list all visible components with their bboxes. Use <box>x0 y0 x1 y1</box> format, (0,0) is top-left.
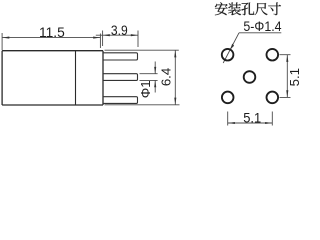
svg-text:5.1: 5.1 <box>243 110 261 126</box>
dim 5.1 right bottom arrow <box>286 90 288 97</box>
dim phi1 dimension line upper segment <box>154 62 156 74</box>
dim 6.4 dimension line <box>174 50 176 105</box>
dim 5.1 right top arrow <box>286 55 288 62</box>
dim 5.1 bottom left arrow <box>228 122 235 124</box>
svg-text:11.5: 11.5 <box>39 24 65 40</box>
dim 11.5 left arrow <box>2 37 9 39</box>
dim 3.9 right arrow <box>131 34 138 36</box>
dim phi1 upper arrow (pointing down) <box>154 67 156 74</box>
flange step line <box>75 51 77 105</box>
connector body outline (side view) <box>2 51 103 105</box>
dim 5.1 bottom extension ticks <box>228 112 273 126</box>
dim 5.1 right extension ticks <box>280 55 291 98</box>
dim 3.9 extension lines <box>103 31 138 48</box>
svg-text:5-Φ1.4: 5-Φ1.4 <box>243 18 281 34</box>
dim 3.9 left arrow <box>103 34 110 36</box>
svg-text:Φ1: Φ1 <box>138 80 153 98</box>
svg-text:6.4: 6.4 <box>158 68 173 86</box>
dim 6.4 extension lines (body top/bottom extended) <box>105 50 180 105</box>
dim 6.4 top arrow <box>174 50 176 57</box>
dim phi1 dimension line lower segment <box>154 80 156 92</box>
dim 6.4 bottom arrow <box>174 98 176 105</box>
dim phi1 extension lines (pin2 edges extended) <box>140 74 158 81</box>
leader arrowhead <box>230 44 234 50</box>
dim phi1 lower arrow (pointing up) <box>154 80 156 87</box>
hole top-left <box>222 49 234 61</box>
svg-text:5.1: 5.1 <box>287 68 300 86</box>
hole top-right <box>267 49 279 61</box>
svg-text:3.9: 3.9 <box>111 22 128 38</box>
dim 3.9 dimension line <box>96 34 138 36</box>
dim 5.1 bottom right arrow <box>265 122 272 124</box>
pin 2 (center contact) <box>103 74 138 81</box>
dim 5.1 bottom dimension line <box>228 122 273 124</box>
dim 11.5 extension lines <box>2 33 100 50</box>
hole bottom-left <box>222 92 234 104</box>
pin 1 (top leg) <box>103 53 138 60</box>
hole bottom-right <box>267 92 279 104</box>
dim 11.5 dimension line <box>2 37 100 39</box>
dim 5.1 right dimension line <box>286 55 288 98</box>
leader line to hole <box>223 33 239 63</box>
label 5-phi1.4 underline <box>239 32 281 34</box>
dim 11.5 right arrow <box>93 37 100 39</box>
pin 3 (bottom leg) <box>103 97 138 104</box>
title text 安装孔尺寸 (mounting hole dimensions) as paths <box>215 2 281 15</box>
hole center <box>244 71 256 83</box>
